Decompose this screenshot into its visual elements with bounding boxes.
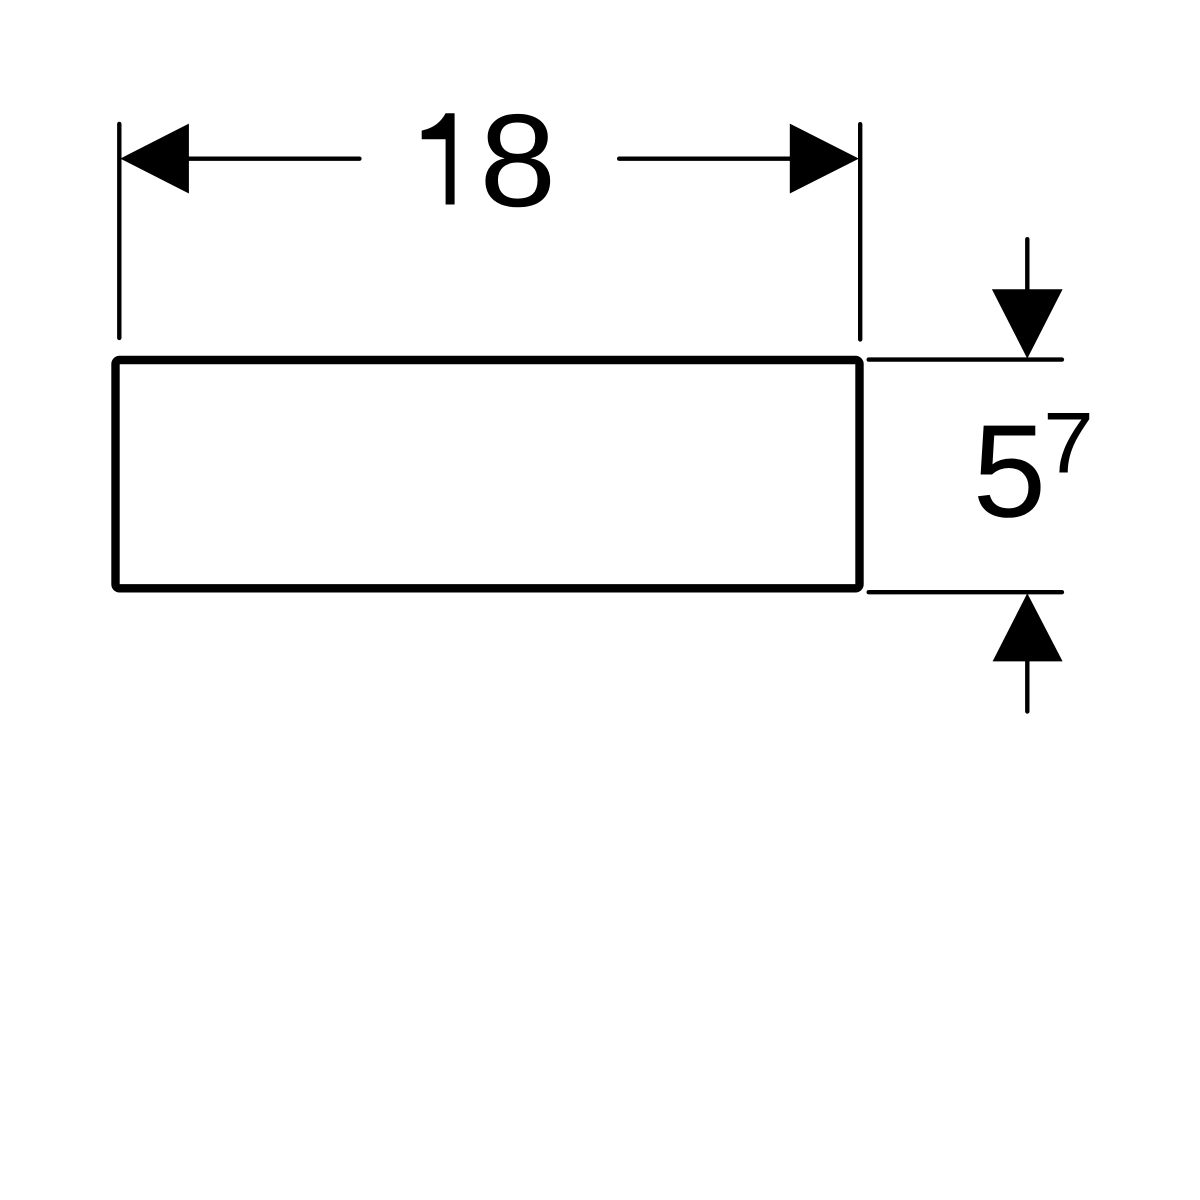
wire right segment of 18 dimension line xyxy=(619,156,792,160)
wire left segment of 18 dimension line xyxy=(187,156,359,160)
wire stem of top arrow of 57 dimension xyxy=(1025,239,1029,292)
svg-text:5: 5 xyxy=(973,398,1046,545)
arrowhead up of 57 dimension xyxy=(993,593,1063,661)
rectangle body outline xyxy=(116,360,860,588)
wire bottom extension line of 57 dimension xyxy=(869,590,1062,594)
wire stem of bottom arrow of 57 dimension xyxy=(1025,659,1029,712)
svg-text:8: 8 xyxy=(479,87,556,235)
label 18 digit 1 xyxy=(422,113,455,204)
wire top extension line of 57 dimension xyxy=(869,357,1062,361)
svg-text:7: 7 xyxy=(1043,395,1094,491)
arrowhead left of 18 dimension xyxy=(120,124,189,194)
arrowhead down of 57 dimension xyxy=(992,289,1063,358)
wire left extension line of 18 dimension xyxy=(117,124,121,338)
wire right extension line of 18 dimension xyxy=(858,124,862,339)
arrowhead right of 18 dimension xyxy=(790,124,859,194)
